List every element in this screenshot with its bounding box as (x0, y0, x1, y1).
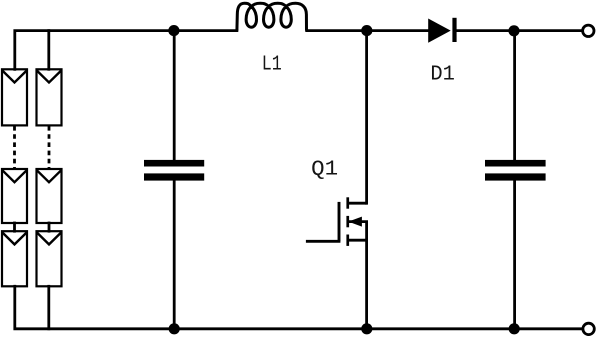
MOSFET Q1 gate lead (307, 240, 339, 243)
PV cell (module string column 2, row 3) (37, 231, 62, 286)
wire: top bus from PV array to inductor (15, 31, 237, 70)
wire: input capacitor bottom lead (173, 181, 176, 329)
wire: input capacitor top lead (173, 31, 176, 160)
wire: switch node vertical (drain lead) (365, 31, 368, 204)
junction dot: output cap / top bus (508, 25, 519, 36)
wire: output capacitor top lead (513, 31, 516, 160)
wire: bottom return bus (15, 286, 583, 329)
MOSFET Q1 gate electrode (338, 202, 341, 241)
MOSFET Q1 source stub (349, 239, 367, 242)
capacitor C_in bottom plate (144, 173, 204, 180)
PV cell (module string column 1, row 3) (2, 231, 27, 286)
PV string continuation dashed wire, column 1 (13, 126, 16, 169)
wire: PV column 2 bottom stub (47, 286, 50, 329)
wire: source lead down to bottom bus (365, 240, 368, 329)
MOSFET Q1 drain contact bar (346, 197, 349, 208)
MOSFET Q1 body contact bar (346, 216, 349, 227)
output terminal (-) (583, 323, 594, 334)
wire: top bus inductor to diode anode (307, 29, 429, 32)
inductor L1 (237, 3, 307, 30)
PV cell (module string column 1, row 1) (2, 69, 27, 125)
PV cell (module string column 2, row 2) (37, 169, 62, 223)
svg-text:L1: L1 (262, 53, 282, 77)
junction dot: source / bottom bus (361, 323, 372, 334)
PV cell (module string column 2, row 1) (37, 69, 62, 125)
wire: PV column 1 inter-cell stub (13, 223, 16, 231)
junction dot: input cap / bottom bus (169, 323, 180, 334)
diode D1 cathode bar (452, 18, 456, 42)
PV string continuation dashed wire, column 2 (48, 126, 51, 169)
wire: top bus diode cathode to output terminal (457, 29, 583, 32)
MOSFET Q1 body stub and tie to source (349, 222, 367, 241)
svg-text:D1: D1 (430, 63, 455, 87)
junction dot: switch node / top bus (361, 25, 372, 36)
wire: PV column 2 inter-cell stub (48, 223, 51, 231)
capacitor C_out bottom plate (485, 173, 546, 180)
junction dot: output cap / bottom bus (509, 323, 520, 334)
junction dot: input cap / top bus (168, 25, 179, 36)
MOSFET Q1 body diode arrow (350, 217, 362, 226)
PV cell (module string column 1, row 2) (2, 169, 27, 223)
svg-text:Q1: Q1 (311, 158, 338, 182)
diode D1 triangle (anode) (428, 19, 451, 43)
wire: PV column 2 top stub (47, 31, 50, 70)
wire: output capacitor bottom lead (513, 181, 516, 329)
MOSFET Q1 source contact bar (346, 235, 349, 246)
capacitor C_in top plate (144, 160, 204, 167)
output terminal (+) (583, 25, 594, 36)
capacitor C_out top plate (485, 160, 546, 167)
MOSFET Q1 drain stub (349, 202, 367, 205)
